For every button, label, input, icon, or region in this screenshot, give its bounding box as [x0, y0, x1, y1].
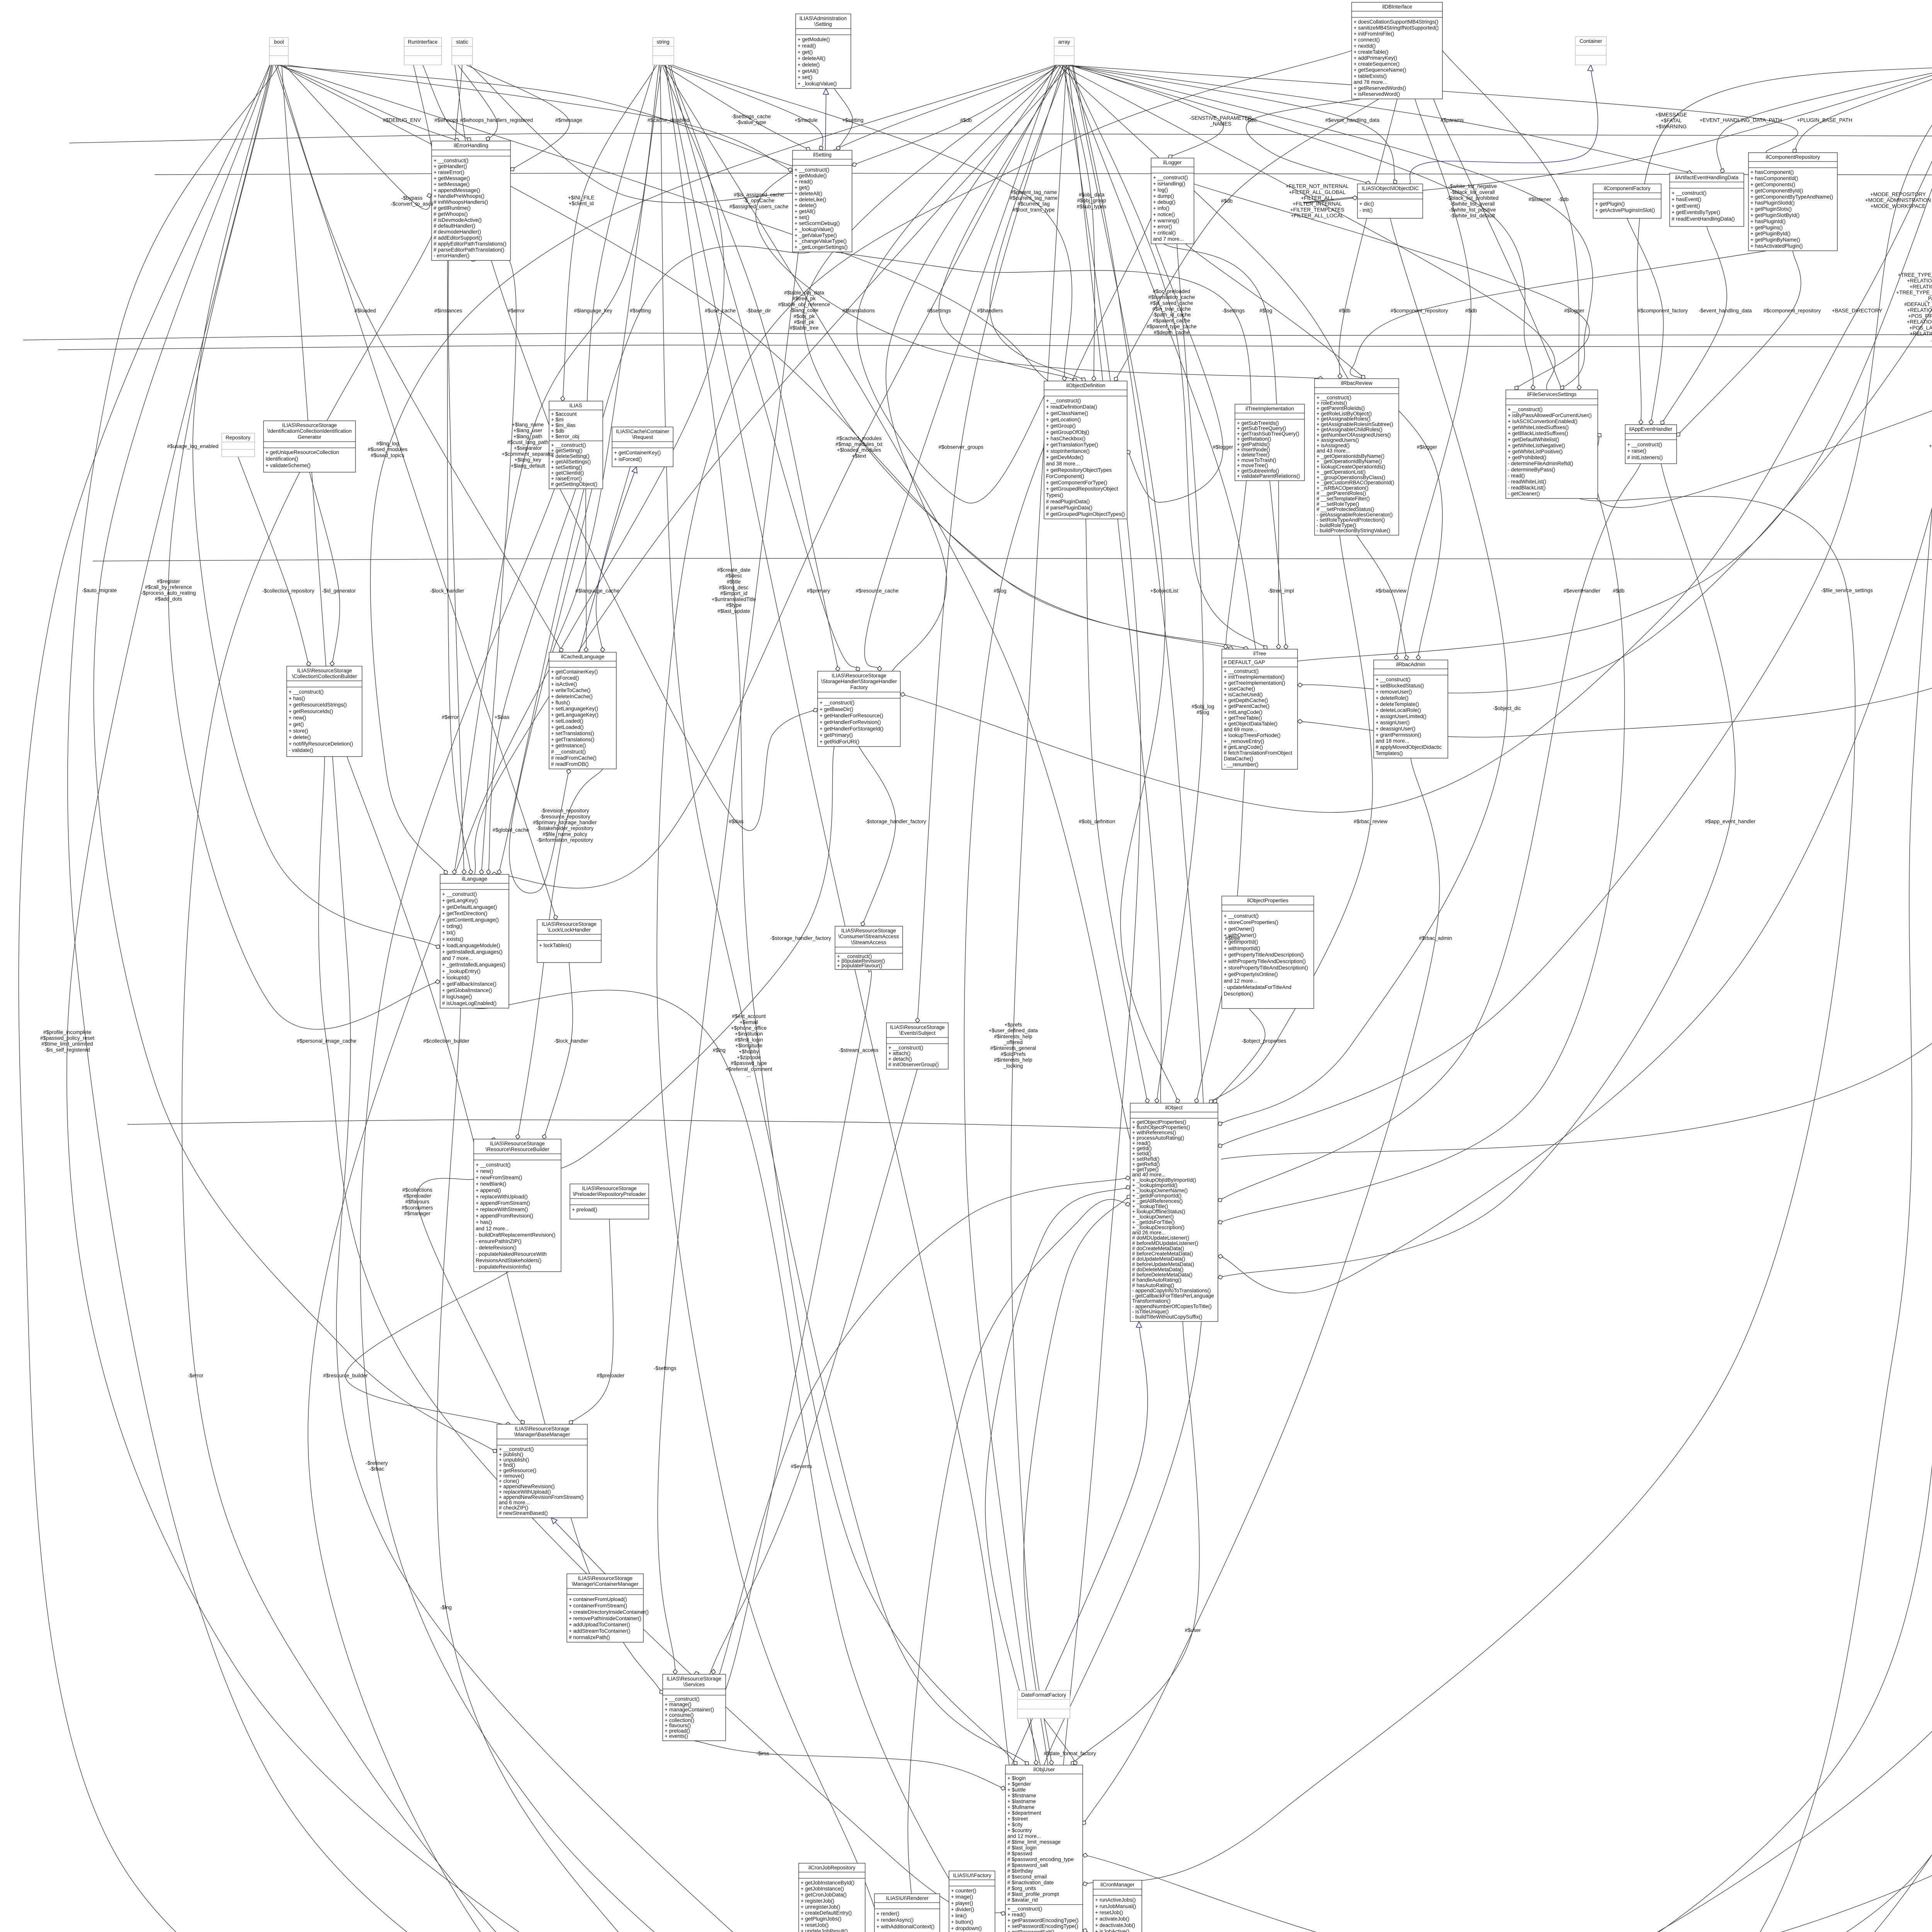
class static	[452, 37, 473, 65]
svg-text:+ nextId(): + nextId()	[1354, 43, 1376, 49]
wire date_format_factory	[1044, 1718, 1077, 1765]
svg-text:-$settings: -$settings	[654, 1366, 677, 1371]
wire setting_attr	[834, 88, 853, 150]
svg-text:+ moveToTrash(): + moveToTrash()	[1237, 457, 1276, 463]
svg-text:+ storePropertyTitleAndDescrip: + storePropertyTitleAndDescription()	[1224, 965, 1308, 971]
svg-text:-$collection_repository: -$collection_repository	[262, 588, 314, 594]
svg-text:+RELATION_PARENT: +RELATION_PARENT	[1907, 278, 1932, 284]
svg-text:+ deleteSetting(): + deleteSetting()	[551, 453, 589, 459]
class ilObjectProperties	[1222, 896, 1314, 1009]
svg-text:+MODE_WORKSPACE: +MODE_WORKSPACE	[1871, 203, 1926, 209]
svg-text:+RELATION_SIBLING: +RELATION_SIBLING	[1907, 307, 1932, 313]
svg-text:+ hasPluginSlotId(): + hasPluginSlotId()	[1750, 200, 1794, 206]
svg-text:+ __construct(): + __construct()	[551, 442, 586, 448]
svg-text:and 12 more...: and 12 more...	[1224, 978, 1257, 984]
svg-text:# isDevmodeActive(): # isDevmodeActive()	[434, 217, 482, 223]
svg-text:#$db: #$db	[1465, 308, 1477, 314]
svg-text:# __getParentRoles(): # __getParentRoles()	[1316, 490, 1366, 496]
svg-text:#$interests_general: #$interests_general	[990, 1045, 1036, 1051]
svg-text:+ grantPermission(): + grantPermission()	[1376, 732, 1421, 738]
svg-text:+ hasEvent(): + hasEvent()	[1672, 197, 1701, 202]
svg-text:+ isReservedWord(): + isReservedWord()	[1354, 91, 1400, 97]
svg-text:string: string	[656, 39, 669, 45]
svg-text:+$lang_user: +$lang_user	[514, 428, 543, 434]
svg-text:+ getResourceIds(): + getResourceIds()	[289, 708, 333, 714]
svg-text:+ getWhiteListPositive(): + getWhiteListPositive()	[1508, 449, 1563, 454]
svg-text:#$current_tag_name: #$current_tag_name	[1010, 195, 1058, 201]
svg-text:+ setPasswordEncodingType(): + setPasswordEncodingType()	[1007, 1923, 1078, 1929]
svg-text:and 38 more...: and 38 more...	[1046, 461, 1080, 467]
svg-text:+ getModule(): + getModule()	[794, 173, 827, 179]
wire table_obj_data	[804, 65, 1248, 649]
svg-text:static: static	[456, 39, 468, 45]
svg-text:and 43 more...: and 43 more...	[1316, 448, 1350, 454]
svg-text:+ deleteInCache(): + deleteInCache()	[551, 694, 593, 699]
class ilSetting	[793, 150, 852, 252]
svg-text:+ detach(): + detach()	[888, 1056, 912, 1062]
wire db_rbacadmin	[1396, 99, 1471, 660]
wire refinery	[360, 489, 922, 1932]
wire event_handling_data	[1065, 65, 1396, 184]
svg-text:\Consumer\StreamAccess: \Consumer\StreamAccess	[838, 934, 899, 939]
svg-text:# getWhoops(): # getWhoops()	[434, 211, 468, 217]
svg-text:+ withImportId(): + withImportId()	[1224, 946, 1260, 951]
svg-text:+ store(): + store()	[289, 728, 308, 734]
svg-text:+ debug(): + debug()	[1153, 199, 1175, 205]
wire MESSAGE	[1637, 65, 1932, 425]
wire inh_objuser	[1012, 1321, 1148, 1765]
wire fan_a4	[1063, 65, 1798, 153]
svg-text:# checkZIP(): # checkZIP()	[499, 1505, 529, 1511]
svg-text:#$assigned_users_cache: #$assigned_users_cache	[729, 204, 788, 209]
svg-text:#$whoops: #$whoops	[434, 117, 458, 123]
svg-text:-$auto_migrate: -$auto_migrate	[82, 588, 117, 594]
svg-text:+ delete(): + delete()	[794, 202, 816, 208]
wire lng_log	[371, 65, 1056, 874]
svg-text:+ getLocation(): + getLocation()	[1046, 417, 1081, 422]
svg-text:# $avatar_rid: # $avatar_rid	[1007, 1897, 1038, 1903]
svg-text:#$preloader: #$preloader	[597, 1373, 625, 1379]
class DateFormatFactory	[1017, 1690, 1070, 1718]
svg-text:+ _lookupValue(): + _lookupValue()	[798, 81, 837, 87]
svg-text:+$separator: +$separator	[514, 445, 542, 451]
svg-text:# $passwd: # $passwd	[1007, 1850, 1032, 1856]
svg-text:+$text: +$text	[852, 453, 866, 459]
wire logger_rbacadmin	[1185, 244, 1442, 660]
svg-text:+ _removeEntry(): + _removeEntry()	[1224, 738, 1264, 744]
svg-text:+ getDefaultLanguage(): + getDefaultLanguage()	[442, 904, 497, 910]
svg-text:+ lookupId(): + lookupId()	[442, 975, 470, 980]
wire observer_groups	[917, 65, 1063, 1023]
svg-text:Generator: Generator	[298, 434, 321, 440]
wire sweep7	[1044, 65, 1206, 1765]
svg-text:#$resource_builder: #$resource_builder	[323, 1373, 368, 1379]
svg-text:#$obj_log: #$obj_log	[1192, 704, 1214, 709]
svg-text:+ has(): + has()	[289, 696, 305, 701]
svg-text:# $time_limit_message: # $time_limit_message	[1007, 1839, 1061, 1845]
svg-text:+ __construct(): + __construct()	[1376, 677, 1410, 682]
svg-text:+ dropdown(): + dropdown()	[951, 1925, 982, 1931]
wire language_key	[586, 65, 655, 652]
svg-text:+ runJobManual(): + runJobManual()	[1095, 1903, 1136, 1909]
svg-text:#$rbac_admin: #$rbac_admin	[1419, 935, 1452, 941]
svg-text:+ getOwner(): + getOwner()	[1224, 926, 1254, 932]
wire db_objdef	[1115, 99, 1379, 381]
svg-text:+ getDefaultWhitelist(): + getDefaultWhitelist()	[1508, 437, 1559, 442]
wire message	[466, 65, 570, 171]
svg-text:+$loaded_modules: +$loaded_modules	[837, 447, 881, 453]
svg-text:+ getModule(): + getModule()	[798, 37, 830, 43]
wire rbac_admin	[1083, 758, 1440, 1825]
svg-text:#$parent_cache: #$parent_cache	[1153, 318, 1190, 323]
svg-text:-$convert_to_ascii: -$convert_to_ascii	[391, 201, 433, 207]
svg-text:-$storage_handler_factory: -$storage_handler_factory	[770, 935, 831, 941]
svg-text:+ remove(): + remove()	[499, 1473, 524, 1479]
svg-text:+ assignUserLimited(): + assignUserLimited()	[1376, 714, 1427, 719]
svg-text:+ getJobInstanceById(): + getJobInstanceById()	[801, 1880, 854, 1886]
svg-text:+ assignUser(): + assignUser()	[1376, 720, 1410, 726]
svg-text:-$object_properties: -$object_properties	[1242, 1038, 1286, 1044]
svg-text:+ deleteTemplate(): + deleteTemplate()	[1376, 701, 1419, 707]
svg-text:+RELATION_EQUALS: +RELATION_EQUALS	[1907, 319, 1932, 325]
wire fan_a6	[1066, 65, 1256, 649]
svg-text:+ txt(): + txt()	[442, 930, 456, 935]
svg-text:+ _changeValueType(): + _changeValueType()	[794, 238, 847, 244]
svg-text:ILIAS\ResourceStorage: ILIAS\ResourceStorage	[297, 668, 352, 673]
wire hrow2	[23, 333, 1932, 340]
svg-text:+ getAssignableRolesInSubtree(: + getAssignableRolesInSubtree()	[1316, 421, 1393, 427]
wire shf1	[859, 747, 896, 926]
svg-text:+ createSequence(): + createSequence()	[1354, 61, 1400, 67]
svg-text:+ getInstance(): + getInstance()	[551, 743, 586, 748]
svg-text:and 6 more...: and 6 more...	[499, 1500, 530, 1505]
wire hrow3	[93, 558, 1932, 561]
svg-text:-$stream_access: -$stream_access	[839, 1048, 879, 1053]
svg-text:- populateRevisionInfo(): - populateRevisionInfo()	[476, 1264, 531, 1270]
wire error_services	[182, 236, 922, 1932]
svg-text:ilRbacReview: ilRbacReview	[1341, 380, 1372, 386]
wire db_ilsetting	[852, 65, 1060, 165]
svg-text:#$db: #$db	[1221, 198, 1233, 204]
svg-text:-$settings: -$settings	[1222, 308, 1245, 314]
svg-text:-$settings_cache: -$settings_cache	[731, 114, 771, 119]
svg-text:+BASE_DIRECTORY: +BASE_DIRECTORY	[1832, 308, 1882, 314]
svg-text:- validate(): - validate()	[289, 747, 313, 753]
svg-text:+ attach(): + attach()	[888, 1051, 910, 1056]
svg-text:+$lang_path: +$lang_path	[514, 434, 543, 439]
svg-text:\Manager\ContainerManager: \Manager\ContainerManager	[572, 1581, 639, 1587]
class ilComponentFactory	[1593, 184, 1661, 218]
svg-text:#$user: #$user	[1185, 1628, 1201, 1633]
svg-text:+$lang_key: +$lang_key	[514, 457, 541, 463]
class ilFileServicesSettings	[1506, 390, 1598, 498]
svg-text:+ getResourceIdStrings(): + getResourceIdStrings()	[289, 702, 347, 708]
svg-text:+ __construct(): + __construct()	[1672, 190, 1706, 196]
svg-text:+ publish(): + publish()	[499, 1452, 523, 1458]
wire collection_repository	[238, 457, 309, 666]
svg-text:+ warning(): + warning()	[1153, 218, 1179, 223]
svg-text:+ _groupOperationsByClass(): + _groupOperationsByClass()	[1316, 474, 1385, 480]
svg-text:+ deleteAll(): + deleteAll()	[798, 56, 825, 61]
svg-text:#$title: #$title	[727, 579, 741, 585]
svg-text:\Services: \Services	[683, 1682, 705, 1687]
svg-text:+ appendNewRevision(): + appendNewRevision()	[499, 1484, 554, 1490]
svg-text:+ resetJob(): + resetJob()	[801, 1922, 828, 1928]
svg-text:#$passwd_policy_reset: #$passwd_policy_reset	[40, 1035, 95, 1041]
class CollIdGen	[264, 421, 355, 472]
svg-text:+ getResource(): + getResource()	[499, 1468, 536, 1473]
svg-text:+ getAssignableChildRoles(): + getAssignableChildRoles()	[1316, 427, 1383, 432]
svg-text:# getLangCode(): # getLangCode()	[1224, 744, 1263, 750]
wire collection_builder	[347, 757, 663, 1694]
svg-text:#$rbacreview: #$rbacreview	[1376, 588, 1407, 594]
wire rbac_review2	[1209, 535, 1372, 1103]
wire SENSTIVE	[1070, 65, 1223, 158]
wire global_cache	[509, 489, 592, 893]
svg-text:- init(): - init()	[1359, 207, 1373, 213]
svg-text:+ _getLongerSettings(): + _getLongerSettings()	[794, 244, 848, 250]
svg-text:+ __construct(): + __construct()	[1508, 406, 1543, 412]
svg-text:+ getRoleListByObject(): + getRoleListByObject()	[1316, 411, 1372, 417]
svg-text:ilObjectProperties: ilObjectProperties	[1247, 898, 1289, 903]
svg-text:+ getLanguageKey(): + getLanguageKey()	[551, 712, 599, 718]
svg-text:+ appendNewRevisionFromStream(: + appendNewRevisionFromStream()	[499, 1494, 583, 1500]
svg-text:+ isByPassAllowedForCurrentUse: + isByPassAllowedForCurrentUser()	[1508, 413, 1592, 418]
svg-text:#$consumers: #$consumers	[401, 1205, 433, 1211]
svg-text:+$user_defined_data: +$user_defined_data	[988, 1028, 1038, 1034]
svg-text:+ getWhiteListedSuffixes(): + getWhiteListedSuffixes()	[1508, 425, 1569, 430]
wire white_list	[1069, 65, 1533, 390]
svg-text:+$referral_comment: +$referral_comment	[725, 1066, 772, 1072]
wire primary	[668, 65, 859, 671]
svg-text:and 78 more...: and 78 more...	[1354, 79, 1387, 85]
wire obj_log	[1156, 244, 1203, 1103]
wire bypass	[284, 65, 432, 209]
wire resource_cache	[865, 65, 1055, 671]
svg-text:#$handlers: #$handlers	[977, 308, 1003, 314]
svg-text:+ getPluginSlotById(): + getPluginSlotById()	[1750, 213, 1799, 218]
svg-text:+ deleteLocalRole(): + deleteLocalRole()	[1376, 707, 1421, 713]
wire log_user	[964, 218, 1151, 1765]
wire ext_account	[660, 65, 1029, 1765]
svg-text:#$usage_log_enabled: #$usage_log_enabled	[167, 444, 219, 449]
svg-text:-$lang_code: -$lang_code	[790, 308, 818, 313]
svg-text:+ _lookupEntry(): + _lookupEntry()	[442, 968, 480, 974]
svg-text:+ getPluginJobs(): + getPluginJobs()	[801, 1916, 841, 1922]
svg-text:ilCachedLanguage: ilCachedLanguage	[561, 654, 605, 660]
svg-text:- readWhiteList(): - readWhiteList()	[1508, 479, 1546, 485]
class ilCronManager	[1093, 1880, 1142, 1932]
wire fan_st1	[469, 65, 793, 202]
wire tree_impl	[1270, 481, 1286, 649]
svg-text:+ populateFlavour(): + populateFlavour()	[837, 963, 882, 969]
wire app_event_handler	[1218, 464, 1735, 1278]
svg-text:\Resource\ResourceBuilder: \Resource\ResourceBuilder	[485, 1146, 549, 1152]
svg-text:+ dump(): + dump()	[1153, 193, 1174, 199]
class BaseManager	[497, 1424, 587, 1518]
svg-text:#$db: #$db	[960, 117, 972, 123]
svg-text:+ player(): + player()	[951, 1900, 973, 1906]
svg-text:# parseEditorPathTranslation(): # parseEditorPathTranslation()	[434, 247, 504, 253]
svg-text:+ preload(): + preload()	[572, 1207, 597, 1213]
svg-text:+ new(): + new()	[289, 715, 306, 721]
svg-text:+RELATION_CHILD: +RELATION_CHILD	[1910, 284, 1932, 289]
svg-text:+ delete(): + delete()	[289, 735, 311, 740]
svg-text:ilComponentRepository: ilComponentRepository	[1766, 154, 1820, 160]
svg-text:+FILTER_TEMPLATES: +FILTER_TEMPLATES	[1290, 207, 1344, 213]
svg-text:+ $city: + $city	[1007, 1821, 1023, 1827]
wire collections_lbl	[417, 1178, 524, 1424]
svg-text:+ dic(): + dic()	[1359, 201, 1374, 207]
svg-text:+ registerJob(): + registerJob()	[801, 1898, 834, 1904]
svg-text:#$cust_lang_path: #$cust_lang_path	[507, 439, 549, 445]
wire irss	[694, 1741, 1005, 1789]
svg-text:+ getSetting(): + getSetting()	[551, 448, 582, 454]
svg-text:+ getGlobalInstance(): + getGlobalInstance()	[442, 988, 492, 993]
svg-text:-$dic: -$dic	[1245, 117, 1257, 123]
svg-text:Repository: Repository	[226, 435, 251, 440]
svg-text:+ notice(): + notice()	[1153, 212, 1175, 218]
svg-text:#$ilias: #$ilias	[729, 819, 744, 825]
svg-text:+ setBlockedStatus(): + setBlockedStatus()	[1376, 683, 1424, 689]
wire fan_i1	[1221, 65, 1932, 1159]
svg-text:+ find(): + find()	[499, 1462, 515, 1468]
svg-text:+ getEvent(): + getEvent()	[1672, 203, 1700, 209]
svg-text:\StorageHandler\StorageHandler: \StorageHandler\StorageHandler	[821, 679, 897, 684]
svg-text:#$table_tree: #$table_tree	[789, 325, 818, 331]
svg-text:ILIAS\UI\Factory: ILIAS\UI\Factory	[953, 1872, 991, 1878]
wire settings_services	[658, 252, 798, 1674]
wire rbacreview_lbl	[1357, 535, 1407, 660]
svg-text:_looking: _looking	[1003, 1063, 1023, 1069]
svg-text:#$logger: #$logger	[1213, 444, 1233, 450]
svg-text:+ handlePreWhoops(): + handlePreWhoops()	[434, 193, 485, 199]
svg-text:Container: Container	[1580, 38, 1602, 44]
svg-text:# parsePluginData(): # parsePluginData()	[1046, 505, 1092, 511]
svg-text:- buildTitleWithoutCopySuffix(: - buildTitleWithoutCopySuffix()	[1132, 1314, 1202, 1320]
svg-text:ILIAS\UI\Renderer: ILIAS\UI\Renderer	[886, 1895, 929, 1901]
wire fan_b2	[278, 65, 1048, 381]
svg-text:- buildDraftReplacementRevisio: - buildDraftReplacementRevision()	[476, 1232, 555, 1238]
wire fan_s3	[553, 65, 662, 652]
svg-text:#$rbac_review: #$rbac_review	[1354, 819, 1388, 825]
svg-text:#$collection_builder: #$collection_builder	[423, 1038, 469, 1044]
wire time_limit_owner	[1022, 65, 1932, 1932]
svg-text:#$parent_tag_name: #$parent_tag_name	[1010, 189, 1057, 195]
svg-text:+ __construct(): + __construct()	[442, 891, 477, 897]
svg-text:+ initFromIniFile(): + initFromIniFile()	[1354, 31, 1394, 37]
svg-text:\Manager\BaseManager: \Manager\BaseManager	[514, 1432, 570, 1437]
svg-text:+ getContainerKey(): + getContainerKey()	[614, 450, 661, 456]
svg-text:#$time_limit_unlimited: #$time_limit_unlimited	[41, 1041, 93, 1047]
wire settings_cache	[663, 65, 810, 150]
wire ilias_lang	[488, 489, 576, 874]
svg-text:#$ext_account: #$ext_account	[732, 1014, 766, 1019]
svg-text:+ isASCIIConvertionEnabled(): + isASCIIConvertionEnabled()	[1508, 418, 1577, 424]
svg-text:-$stakeholder_repository: -$stakeholder_repository	[536, 825, 594, 831]
svg-text:- readBlackList(): - readBlackList()	[1508, 485, 1546, 491]
svg-text:+ updateJobResult(): + updateJobResult()	[801, 1928, 848, 1932]
wire auto_migrate	[94, 65, 497, 1452]
wire error_lang	[447, 260, 471, 874]
wire sweep5	[1022, 65, 1932, 1932]
wire hrow1b	[155, 173, 1932, 178]
svg-text:+ initTreeImplementation(): + initTreeImplementation()	[1224, 674, 1284, 680]
svg-text:#$eventHandler: #$eventHandler	[1563, 588, 1600, 594]
svg-text:+ __construct(): + __construct()	[1224, 913, 1259, 919]
svg-text:-$file_service_settings: -$file_service_settings	[1821, 588, 1873, 594]
wire file_service_settings	[1083, 497, 1855, 1885]
svg-text:+ getContentLanguage(): + getContentLanguage()	[442, 917, 499, 923]
svg-text:+ getObjectDataTable(): + getObjectDataTable()	[1224, 721, 1277, 727]
svg-text:+ getClientId(): + getClientId()	[551, 470, 584, 476]
svg-text:+ getUniqueResourceCollection: + getUniqueResourceCollection	[265, 449, 339, 455]
svg-text:+$untranslatedTitle: +$untranslatedTitle	[712, 596, 756, 602]
svg-text:+ getLoaded(): + getLoaded()	[551, 724, 583, 730]
class ILIAS	[549, 401, 603, 489]
svg-text:+ events(): + events()	[665, 1733, 688, 1739]
wire handlers	[990, 65, 1086, 381]
svg-text:#$is_saved_cache: #$is_saved_cache	[1150, 300, 1193, 306]
svg-text:# DEFAULT_GAP: # DEFAULT_GAP	[1224, 660, 1265, 665]
svg-text:+ newFromStream(): + newFromStream()	[476, 1175, 522, 1180]
svg-text:+ getTranslations(): + getTranslations()	[551, 736, 594, 742]
svg-text:ILIAS\Object\ilObjectDIC: ILIAS\Object\ilObjectDIC	[1362, 185, 1419, 191]
svg-text:+ getClassName(): + getClassName()	[1046, 410, 1088, 416]
svg-text:ILIAS\ResourceStorage: ILIAS\ResourceStorage	[282, 422, 337, 428]
svg-text:# addEditorSupport(): # addEditorSupport()	[434, 235, 482, 241]
wire sweep4	[988, 65, 1932, 1932]
wire lang_name	[454, 65, 659, 874]
svg-text:#$flavours: #$flavours	[405, 1199, 430, 1205]
svg-text:+ $db: + $db	[551, 428, 564, 434]
svg-text:+ _getValueType(): + _getValueType()	[794, 232, 837, 238]
wire events_lbl	[708, 1069, 917, 1680]
svg-text:#$obj_definition: #$obj_definition	[1079, 819, 1116, 825]
wire register	[168, 65, 440, 1029]
svg-text:#$current_tag: #$current_tag	[1017, 201, 1049, 207]
svg-text:+ isCacheUsed(): + isCacheUsed()	[1224, 692, 1263, 697]
svg-text:+ deassignUser(): + deassignUser()	[1376, 726, 1415, 731]
svg-text:ILIAS\ResourceStorage: ILIAS\ResourceStorage	[841, 928, 896, 934]
svg-text:Description(): Description()	[1224, 991, 1253, 997]
svg-text:+FILTER_NOT_INTERNAL: +FILTER_NOT_INTERNAL	[1286, 184, 1349, 189]
svg-text:#$root_trans_type: #$root_trans_type	[1013, 207, 1055, 213]
svg-text:+ addUploadToContainer(): + addUploadToContainer()	[569, 1622, 630, 1628]
class array	[1054, 37, 1074, 65]
svg-text:+ setSetting(): + setSetting()	[551, 464, 582, 470]
svg-text:ILIAS\ResourceStorage: ILIAS\ResourceStorage	[582, 1185, 637, 1191]
svg-text:#DEFAULT_LANGUAGE: #DEFAULT_LANGUAGE	[1904, 301, 1932, 307]
wire cached_modules	[492, 65, 1061, 888]
wire sweep8	[657, 51, 1352, 1932]
svg-text:# readFromDB(): # readFromDB()	[551, 761, 589, 767]
svg-text:\Setting: \Setting	[814, 21, 832, 27]
wire lookup4	[908, 1199, 1130, 1932]
wire db_obj	[1218, 99, 1624, 1223]
class ilLogger	[1151, 158, 1194, 244]
svg-text:-$white_list_positive: -$white_list_positive	[1449, 207, 1496, 213]
svg-text:+ getPlugins(): + getPlugins()	[1750, 224, 1783, 230]
svg-text:# $password_salt: # $password_salt	[1007, 1862, 1048, 1868]
svg-text:-$bypass: -$bypass	[401, 195, 423, 201]
svg-text:+$lang_name: +$lang_name	[512, 422, 544, 427]
svg-text:# initWhoopsHandlers(): # initWhoopsHandlers()	[434, 199, 488, 205]
svg-text:+PHP_MEMORY: +PHP_MEMORY	[1929, 443, 1932, 449]
svg-text:+ txtlng(): + txtlng()	[442, 923, 463, 929]
wire inh_cachedlang	[579, 467, 636, 652]
svg-text:ILIAS\ResourceStorage: ILIAS\ResourceStorage	[515, 1426, 570, 1432]
